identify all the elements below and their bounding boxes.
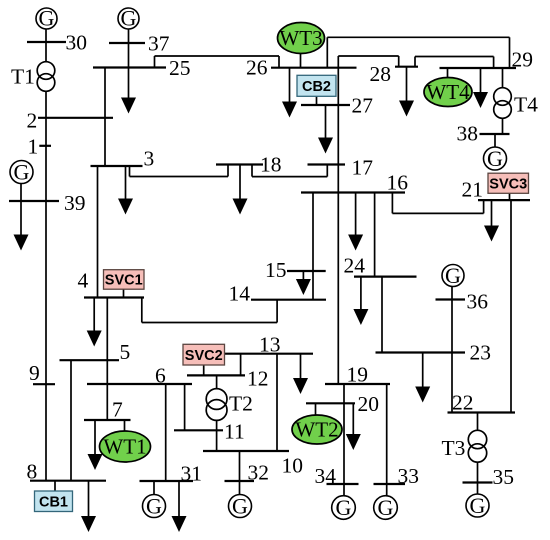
wire WT4 stem	[447, 68, 449, 78]
load arrow head bus 29	[473, 92, 488, 108]
svg-text:G: G	[39, 6, 55, 31]
wind turbine WT4	[424, 78, 472, 107]
svg-text:21: 21	[462, 178, 484, 202]
bus 9	[33, 383, 55, 385]
wire 5-8	[70, 360, 72, 481]
wire 16-24	[374, 193, 376, 277]
wire load arrow bus 8	[88, 481, 90, 525]
svg-text:G: G	[336, 495, 352, 520]
wire load arrow bus 31	[178, 481, 180, 525]
generator G37	[118, 6, 139, 31]
svg-text:31: 31	[181, 462, 203, 486]
load arrow head bus 21	[484, 226, 499, 242]
bus 25	[93, 66, 166, 68]
svg-text:WT4: WT4	[426, 80, 470, 104]
bus 29	[440, 67, 517, 69]
wire load arrow bus 3	[125, 166, 127, 207]
wire load arrow bus 24	[360, 277, 362, 318]
bus 10	[203, 450, 289, 452]
wire WT3 stem	[300, 54, 302, 68]
wire 24-23	[381, 277, 383, 353]
wire T1 to bus 2	[45, 92, 47, 118]
svg-text:39: 39	[64, 191, 86, 215]
wire 25-2-3	[104, 68, 106, 167]
load arrow head bus 27	[318, 138, 333, 154]
bus 28	[395, 66, 418, 68]
svg-text:33: 33	[398, 464, 420, 488]
wire load arrow bus 26	[289, 68, 291, 110]
wire 26-29 riser	[326, 37, 328, 67]
wind turbine WT1	[100, 431, 151, 462]
wire 25-26 horizontal	[155, 55, 280, 57]
wire load arrow bus 18	[239, 165, 241, 208]
bus 22	[448, 411, 516, 413]
wire 29 to T4	[502, 68, 504, 88]
bus 2	[38, 117, 113, 119]
transformer T1	[37, 62, 55, 92]
svg-text:2: 2	[27, 109, 38, 133]
load arrow head bus 39	[14, 235, 29, 251]
wire 13-10	[276, 354, 278, 451]
load arrow head bus 3	[118, 199, 133, 215]
wire load arrow bus 21	[491, 200, 493, 234]
bus 7	[84, 419, 131, 421]
svg-text:SVC3: SVC3	[489, 176, 527, 192]
wire load arrow bus 25	[128, 68, 130, 107]
load arrow head bus 4	[87, 331, 102, 347]
svg-text:1: 1	[28, 135, 39, 159]
svg-text:27: 27	[352, 94, 374, 118]
wire 16-15-14	[312, 193, 314, 300]
bus 20	[306, 402, 355, 404]
svg-text:30: 30	[66, 31, 88, 55]
wire T3 to bus 35	[477, 462, 479, 483]
wire 6-31	[165, 384, 167, 481]
load arrow head bus 25	[121, 98, 136, 114]
svg-text:22: 22	[452, 391, 474, 415]
generator G30	[36, 6, 57, 31]
bus 36	[436, 298, 466, 300]
wire 11-10	[216, 430, 218, 451]
svg-text:37: 37	[148, 32, 170, 56]
wire 16-21 riser	[483, 200, 485, 213]
bus 3	[91, 165, 143, 167]
svg-text:38: 38	[457, 122, 479, 146]
wire load arrow bus 28	[406, 67, 408, 109]
svg-text:SVC2: SVC2	[185, 348, 223, 364]
wire 10-32	[239, 451, 241, 481]
svg-text:9: 9	[29, 361, 40, 385]
svg-text:T2: T2	[229, 392, 253, 416]
svg-text:G: G	[232, 494, 248, 519]
wire bus34 to G34	[343, 484, 345, 496]
wire load arrow bus 39	[20, 201, 22, 244]
svg-text:G: G	[146, 494, 162, 519]
wire 3-18 drop	[129, 166, 131, 177]
transformer T4	[494, 88, 512, 119]
svg-text:4: 4	[78, 269, 89, 293]
wire WT1 stem	[124, 420, 126, 431]
svg-text:13: 13	[259, 333, 281, 357]
wire 28-29 horizontal	[415, 56, 494, 58]
wire 26-29 drop	[509, 37, 511, 68]
wire SVC3 stem	[509, 193, 511, 200]
transformer T3	[468, 430, 486, 462]
wire 16-21 drop	[391, 193, 393, 214]
wire load arrow bus 15	[302, 271, 304, 288]
wind turbine WT2	[292, 415, 342, 444]
svg-text:34: 34	[315, 464, 337, 488]
wire bus33 to G33	[386, 484, 388, 496]
bus 30	[27, 41, 66, 43]
wire bus38 to G38	[494, 134, 496, 147]
svg-text:WT3: WT3	[279, 26, 322, 50]
load arrow head bus 8	[81, 516, 96, 532]
load arrow head bus 28	[399, 101, 414, 117]
svg-text:11: 11	[224, 420, 245, 444]
svg-text:T3: T3	[442, 436, 466, 460]
wire 18-17 horizontal	[252, 176, 327, 178]
svg-text:WT2: WT2	[295, 418, 338, 442]
load arrow head bus 18	[233, 199, 248, 215]
wire T4 to bus 38	[502, 118, 504, 134]
wire bus32 to G32	[239, 481, 241, 495]
svg-text:18: 18	[260, 153, 282, 177]
wire load arrow bus 27	[325, 105, 327, 146]
load arrow head bus 31	[172, 516, 187, 532]
wire 28-29 drop	[493, 57, 495, 69]
svg-text:15: 15	[265, 258, 287, 282]
generator G31	[143, 494, 166, 519]
bus 26	[271, 67, 357, 69]
bus 16	[301, 191, 405, 193]
svg-text:CB2: CB2	[302, 79, 331, 95]
device CB2	[297, 75, 336, 96]
device SVC1	[104, 270, 145, 290]
wire 6-11	[184, 384, 186, 430]
wire 22 to T3	[477, 413, 479, 431]
wire 21-22	[510, 200, 512, 412]
bus 8	[30, 480, 106, 482]
bus 27	[301, 104, 350, 106]
svg-text:G: G	[487, 146, 503, 171]
svg-text:25: 25	[169, 56, 191, 80]
bus 12	[187, 374, 245, 376]
bus 14	[251, 299, 326, 301]
wire G37 to bus 25	[128, 29, 130, 68]
wire 16-21 horizontal	[392, 212, 483, 214]
wire 26-28 drop	[398, 56, 400, 67]
wire 3-4	[97, 166, 99, 298]
load arrow head bus 13	[293, 378, 308, 394]
bus 35	[463, 481, 493, 483]
bus 6	[87, 383, 192, 385]
svg-text:G: G	[14, 160, 30, 185]
svg-text:G: G	[378, 495, 394, 520]
bus 17	[308, 163, 346, 165]
wire G39 stem	[20, 184, 22, 202]
wire bus35 to G35	[477, 483, 479, 495]
wire G30 to T1	[45, 29, 47, 62]
wire 28-29 riser	[414, 57, 416, 67]
load arrow head bus 20	[346, 434, 361, 450]
generator G33	[374, 495, 398, 520]
wire load arrow bus 7	[94, 420, 96, 463]
wire load arrow bus 23	[422, 353, 424, 396]
svg-text:23: 23	[470, 341, 492, 365]
svg-text:36: 36	[467, 290, 489, 314]
generator G36	[442, 263, 464, 288]
svg-text:20: 20	[358, 392, 380, 416]
svg-text:6: 6	[155, 364, 166, 388]
bus 4	[84, 296, 144, 298]
svg-text:8: 8	[27, 460, 38, 484]
bus 18	[216, 163, 263, 165]
bus 5	[60, 359, 120, 361]
bus 13	[225, 353, 313, 355]
load arrow head bus 23	[415, 387, 430, 403]
bus 32	[225, 480, 255, 482]
device SVC3	[488, 173, 529, 193]
wire 3-18 horizontal	[130, 176, 229, 178]
svg-text:SVC1: SVC1	[105, 273, 143, 289]
wire 26-29 horizontal	[327, 36, 509, 38]
wire 4-14 riser	[276, 300, 278, 323]
svg-text:26: 26	[246, 56, 268, 80]
svg-text:G: G	[121, 6, 137, 31]
bus 19	[325, 383, 390, 385]
wire SVC1 stem	[123, 289, 125, 297]
wire 4-5-6-7 vertical	[106, 298, 108, 421]
svg-text:24: 24	[344, 254, 366, 278]
bus 38	[480, 133, 510, 135]
svg-text:T4: T4	[514, 93, 538, 117]
svg-text:T1: T1	[11, 65, 35, 89]
wire 4-14 drop	[141, 298, 143, 323]
svg-text:35: 35	[493, 465, 515, 489]
svg-text:29: 29	[512, 48, 534, 72]
wire 25-26 drop	[278, 56, 280, 68]
wire load arrow bus 4	[93, 298, 95, 340]
wire 13-12	[240, 354, 242, 376]
bus 1	[39, 145, 51, 147]
generator G35	[466, 493, 489, 518]
bus 31	[140, 480, 194, 482]
wire 25-26 riser	[154, 56, 156, 68]
wire 4-14 horizontal	[142, 322, 277, 324]
device CB1	[35, 491, 73, 512]
svg-text:CB1: CB1	[39, 494, 68, 510]
wire WT2 stem	[315, 403, 317, 415]
svg-text:28: 28	[370, 62, 392, 86]
load arrow head bus 26	[282, 102, 297, 118]
bus 39	[9, 200, 59, 202]
svg-text:32: 32	[248, 461, 270, 485]
svg-text:G: G	[470, 493, 486, 518]
load arrow head bus 24	[353, 309, 368, 325]
device SVC2	[183, 344, 225, 365]
wire 26-28 horizontal	[338, 55, 398, 57]
wire SVC2 stem	[203, 365, 205, 375]
wire bus8 to CB1	[54, 481, 56, 491]
bus 34	[327, 483, 359, 485]
load arrow head bus 15	[296, 279, 311, 295]
svg-text:3: 3	[144, 147, 155, 171]
transformer T2	[206, 389, 227, 421]
bus 15	[287, 270, 326, 272]
svg-text:7: 7	[112, 398, 123, 422]
bus 23	[376, 351, 466, 353]
wire 26-27-17-16-19 vertical	[337, 56, 339, 384]
svg-text:17: 17	[352, 156, 374, 180]
load arrow head bus 7	[88, 454, 103, 470]
wire load arrow bus 13	[300, 354, 302, 387]
wire 18-17 drop	[251, 165, 253, 177]
wire 18-17 riser	[326, 165, 328, 177]
svg-text:12: 12	[247, 367, 269, 391]
svg-text:16: 16	[387, 171, 409, 195]
wire bus2-bus1-bus39	[45, 118, 47, 201]
wire bus31 to G31	[153, 481, 155, 495]
bus 24	[354, 276, 417, 278]
generator G38	[484, 146, 507, 171]
svg-text:19: 19	[347, 363, 369, 387]
wire load arrow bus 20	[352, 403, 354, 442]
bus 21	[478, 199, 530, 201]
svg-text:14: 14	[229, 282, 251, 306]
wire 19-20-34	[343, 384, 345, 484]
wire load arrow bus 29	[480, 68, 482, 101]
wind turbine WT3	[278, 23, 325, 54]
generator G32	[229, 494, 252, 519]
wire 19-33	[386, 384, 388, 484]
svg-text:5: 5	[120, 340, 131, 364]
svg-text:10: 10	[282, 454, 304, 478]
wire 12 to T2	[216, 375, 218, 388]
wire 39-9-8	[45, 201, 47, 481]
generator G34	[332, 495, 356, 520]
wire G36-36-23-22 vertical	[451, 287, 453, 413]
bus 33	[374, 483, 406, 485]
svg-text:G: G	[445, 263, 461, 288]
generator G39	[10, 160, 33, 185]
bus 37	[109, 42, 145, 44]
bus 11	[174, 429, 223, 431]
wire T2 to bus 11	[216, 420, 218, 430]
svg-text:WT1: WT1	[103, 435, 146, 459]
wire 3-18 riser	[227, 165, 229, 177]
load arrow head bus 16	[348, 235, 363, 251]
wire load arrow bus 16	[355, 193, 357, 244]
wire CB2 stem	[316, 96, 318, 105]
